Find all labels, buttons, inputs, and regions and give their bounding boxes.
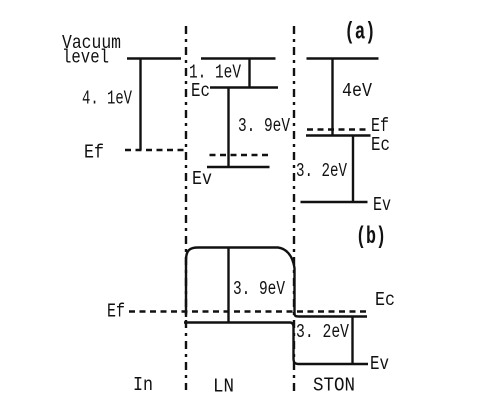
boundary dash-dot line In/LN (185, 26, 187, 390)
svg-text:3. 2eV: 3. 2eV (296, 321, 349, 343)
In work function 4.1eV vertical (139, 59, 141, 151)
LN vacuum level line (201, 57, 276, 59)
In Ef dashed line (125, 149, 186, 151)
svg-text:3. 2eV: 3. 2eV (296, 160, 347, 182)
svg-text:Ev: Ev (373, 194, 391, 216)
STON vacuum level line (307, 57, 379, 59)
svg-text:Ef: Ef (107, 301, 125, 323)
svg-text:4. 1eV: 4. 1eV (82, 88, 132, 110)
svg-text:LN: LN (213, 376, 234, 398)
STON Ec line (306, 134, 371, 136)
STON work function 4eV vertical (331, 59, 333, 136)
LN band gap 3.9eV vertical (227, 88, 229, 168)
boundary dash-dot line LN/STON (293, 26, 295, 391)
svg-text:3. 9eV: 3. 9eV (233, 278, 285, 300)
svg-text:Ec: Ec (375, 289, 395, 311)
svg-text:level: level (62, 47, 109, 69)
svg-text:(b): (b) (356, 224, 386, 251)
svg-text:3. 9eV: 3. 9eV (238, 115, 290, 137)
svg-text:Ev: Ev (192, 168, 212, 190)
band gap 3.9eV vertical (b) (227, 248, 229, 323)
STON band gap 3.2eV vertical (352, 136, 354, 203)
band gap 3.2eV vertical (b) (351, 317, 353, 365)
In vacuum level line (127, 57, 181, 59)
LN Ef dashed line (210, 154, 270, 156)
STON Ev line (301, 201, 368, 203)
Ef dashed line (b) (129, 310, 368, 312)
LN Ec line (210, 86, 278, 88)
svg-text:In: In (133, 374, 153, 396)
Ev band curve (b) (184, 323, 368, 365)
svg-text:STON: STON (313, 375, 355, 397)
svg-text:(a): (a) (345, 20, 376, 47)
svg-text:Ec: Ec (371, 134, 390, 156)
svg-text:4eV: 4eV (342, 80, 373, 102)
STON Ef dashed line (307, 128, 370, 130)
svg-text:Ec: Ec (191, 80, 210, 102)
LN Ev line (207, 166, 270, 168)
svg-text:Ef: Ef (84, 142, 104, 164)
svg-text:Ev: Ev (370, 353, 389, 375)
Ec band curve (b) (186, 248, 367, 318)
LN electron affinity 1.1eV vertical (248, 59, 250, 88)
